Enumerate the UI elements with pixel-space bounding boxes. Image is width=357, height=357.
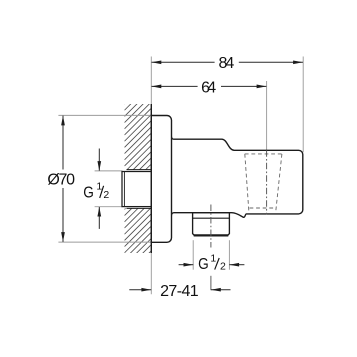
centerline: bottom nipple axis (dash-dot)	[210, 205, 212, 248]
svg-text:1: 1	[210, 252, 216, 264]
extension line: holder cone axis (dim 64 right)	[266, 81, 268, 150]
svg-text:Ø70: Ø70	[47, 171, 75, 188]
svg-text:64: 64	[201, 79, 216, 96]
wall face line (black along hatch)	[150, 104, 152, 253]
dimension 27-41	[129, 289, 230, 291]
dimension 84	[152, 61, 303, 63]
bottom outlet nipple	[193, 213, 230, 236]
centerline: holder cone axis (dash-dot)	[266, 150, 268, 214]
extension lines: flange diameter (dim O70)	[58, 114, 151, 116]
svg-text:2: 2	[220, 261, 226, 273]
dimension 64	[152, 85, 267, 87]
extension lines: left nipple thread (dim G1/2 left)	[95, 170, 123, 172]
body: holder arm and block	[172, 137, 303, 218]
dimension G1/2 bottom	[179, 264, 245, 266]
dimension O70	[62, 116, 64, 242]
extension line: wall face vertical (dim 84/64 left, 27-41 left)	[150, 57, 152, 295]
extension lines: bottom nipple thread (dim G1/2 bottom)	[192, 240, 194, 270]
extension line: right end of holder (dim 84 right)	[302, 57, 304, 153]
svg-text:27-41: 27-41	[160, 283, 199, 300]
svg-text:G: G	[83, 185, 94, 202]
wall hole lines around left nipple	[127, 169, 152, 171]
dimension G1/2 left	[98, 149, 100, 229]
left supply nipple G1/2 through wall	[122, 172, 151, 207]
svg-text:G: G	[198, 256, 209, 273]
hidden cone of holder (dashed)	[245, 154, 282, 212]
svg-text:2: 2	[103, 189, 109, 201]
wall flange (escutcheon O70)	[151, 116, 171, 243]
svg-text:84: 84	[219, 55, 235, 72]
